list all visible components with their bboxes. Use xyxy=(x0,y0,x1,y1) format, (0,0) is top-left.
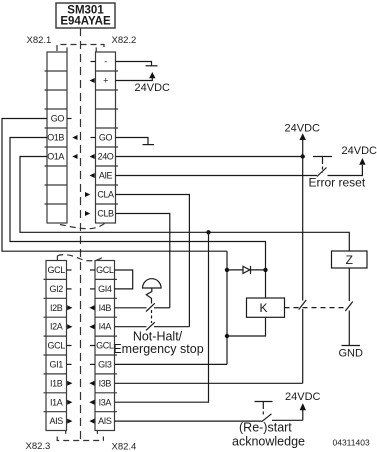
terminal strip X82.2 xyxy=(96,52,119,223)
svg-text:AIE: AIE xyxy=(99,171,113,181)
wire CLA xyxy=(116,195,190,327)
pin stub GCL X82.3 xyxy=(67,269,72,271)
arrow O1B output xyxy=(72,135,77,140)
svg-text:X82.1: X82.1 xyxy=(27,35,52,46)
error reset contact blade xyxy=(317,168,327,177)
hook stub above X82.2 xyxy=(95,47,97,52)
diode D1 xyxy=(243,266,251,274)
node 24O junction xyxy=(301,154,305,158)
module boundary wavy break (top section bottom) xyxy=(60,223,105,228)
svg-text:K: K xyxy=(259,301,267,315)
svg-text:-: - xyxy=(104,57,107,67)
wire restart to 24VDC xyxy=(302,410,304,420)
pin stub GI2 X82.3 xyxy=(67,288,72,290)
wire minus to earth xyxy=(116,62,152,66)
wire contact to GND xyxy=(348,311,350,346)
svg-text:I1A: I1A xyxy=(50,397,63,407)
svg-text:O1B: O1B xyxy=(47,133,64,143)
diode wire xyxy=(227,269,266,271)
error reset button head xyxy=(313,157,332,173)
svg-text:AIS: AIS xyxy=(98,416,112,426)
svg-text:I3B: I3B xyxy=(99,378,112,388)
arrow plus input xyxy=(90,78,95,83)
jumper GCL to GI4 xyxy=(115,270,133,289)
wire I4A contact row xyxy=(115,326,190,328)
arrow AIS input (X82.3) xyxy=(67,419,72,424)
external device Z xyxy=(332,251,368,268)
svg-text:GCL: GCL xyxy=(48,341,66,351)
24VDC supply arrow (restart) xyxy=(300,403,306,410)
wire K coil bottom return xyxy=(227,317,266,336)
svg-text:I2A: I2A xyxy=(50,322,63,332)
svg-text:I4A: I4A xyxy=(99,322,112,332)
svg-text:GND: GND xyxy=(339,348,364,360)
arrow I2A input xyxy=(67,324,72,329)
svg-text:I1B: I1B xyxy=(50,378,63,388)
svg-text:04311403: 04311403 xyxy=(333,437,370,447)
pin stub GI3 X82.4 xyxy=(90,363,95,365)
pin stub GI4 X82.4 xyxy=(90,288,95,290)
terminal strip X82.1 xyxy=(45,52,68,223)
ground symbol (GO) xyxy=(143,144,155,146)
svg-text:X82.3: X82.3 xyxy=(26,441,51,452)
module boundary wavy break (bottom section top) xyxy=(57,255,104,261)
terminal strip X82.4 xyxy=(95,261,117,431)
svg-text:GI1: GI1 xyxy=(50,360,64,370)
svg-text:O1A: O1A xyxy=(47,152,64,162)
arrow AIS input (X82.4) xyxy=(89,419,94,424)
pin stub GO X82.2 xyxy=(91,137,96,139)
wire I3A branch down xyxy=(115,232,209,402)
svg-text:+: + xyxy=(103,76,108,86)
hook stub above X82.3 xyxy=(56,256,58,261)
svg-text:I2B: I2B xyxy=(50,303,63,313)
wire O1B left side xyxy=(10,138,266,298)
wire reset to 24VDC xyxy=(328,165,363,176)
wire O1A left side xyxy=(20,157,349,252)
restart contact blade xyxy=(262,414,272,422)
svg-text:GI3: GI3 xyxy=(98,360,112,370)
NC contact 2 blade xyxy=(146,322,155,330)
arrow CLB output xyxy=(85,211,90,216)
NC contact 1 blade xyxy=(146,303,155,311)
module SM301 title box xyxy=(56,3,115,28)
svg-text:(Re-)start: (Re-)start xyxy=(239,421,292,435)
wire AIE to reset contact xyxy=(116,175,318,177)
arrow O1A output xyxy=(72,154,77,159)
wire GI3 row xyxy=(115,363,228,365)
pin stub GCL X82.4 xyxy=(90,269,95,271)
Z feedback contact blade xyxy=(345,302,353,312)
svg-text:24VDC: 24VDC xyxy=(285,391,321,403)
wire CLB xyxy=(116,214,170,308)
node diode anode xyxy=(225,268,229,272)
svg-text:GCL: GCL xyxy=(96,265,114,275)
arrow I3B input xyxy=(89,381,94,386)
svg-text:GO: GO xyxy=(99,133,113,143)
relay coil K xyxy=(247,298,285,317)
wire 24O xyxy=(116,156,303,158)
arrow 24O output xyxy=(90,154,95,159)
wire 24O rail down to I3B with K contact xyxy=(115,157,303,384)
pin stub minus X82.2 xyxy=(91,61,96,63)
arrow CLA output xyxy=(85,192,90,197)
wire GO (X82.2) to earth xyxy=(116,138,149,145)
svg-text:X82.2: X82.2 xyxy=(112,35,137,46)
wire AIS restart row xyxy=(115,419,303,422)
arrow I4A input xyxy=(89,324,94,329)
node K coil return xyxy=(225,334,229,338)
svg-text:GO: GO xyxy=(51,114,65,124)
hook stub above X82.1 xyxy=(66,47,68,52)
svg-text:I4B: I4B xyxy=(99,303,112,313)
arrow I1B input xyxy=(67,381,72,386)
svg-text:GCL: GCL xyxy=(96,341,114,351)
svg-text:24O: 24O xyxy=(98,152,114,162)
svg-text:CLA: CLA xyxy=(97,190,114,200)
wire plus from 24VDC xyxy=(116,78,153,81)
svg-text:GCL: GCL xyxy=(48,265,66,275)
arrow I1A input xyxy=(67,400,72,405)
pin stub GI1 X82.3 xyxy=(67,363,72,365)
svg-text:Z: Z xyxy=(346,253,353,267)
actuator dashed link to second contact xyxy=(151,310,153,323)
module boundary top dashed outline xyxy=(57,45,104,52)
restart button head xyxy=(255,402,273,417)
svg-text:GI2: GI2 xyxy=(50,284,64,294)
module boundary center dashed line xyxy=(80,28,82,441)
arrow I4B input xyxy=(89,305,94,310)
K relay contact blade (on I3B feed) xyxy=(299,300,307,310)
svg-text:CLB: CLB xyxy=(97,209,114,219)
hook stub below X82.4 xyxy=(96,431,98,434)
terminal strip X82.3 xyxy=(44,261,67,431)
svg-text:E94AYAE: E94AYAE xyxy=(60,16,111,28)
GND symbol xyxy=(342,345,361,347)
svg-text:acknowledge: acknowledge xyxy=(232,435,305,449)
ground symbol (minus) xyxy=(146,65,158,67)
node diode cathode xyxy=(263,268,267,272)
svg-text:Emergency stop: Emergency stop xyxy=(113,342,203,356)
svg-text:24VDC: 24VDC xyxy=(342,145,377,157)
svg-text:I3A: I3A xyxy=(99,397,112,407)
svg-text:Error reset: Error reset xyxy=(309,176,366,190)
24VDC supply arrow (error reset) xyxy=(359,158,365,165)
wire GO (X82.1) left side xyxy=(2,119,227,252)
pin stub GCL2 X82.3 xyxy=(67,345,72,347)
wire Z to contact xyxy=(348,268,350,301)
svg-text:24VDC: 24VDC xyxy=(285,123,321,135)
pin stub GCL2 X82.4 xyxy=(90,345,95,347)
module boundary bottom dashed outline xyxy=(57,437,103,441)
24VDC supply arrow (24O rail) xyxy=(300,133,306,156)
wire GO down to K circuit xyxy=(226,251,228,364)
wire I4B contact row xyxy=(115,307,170,309)
node O1A to I3A branch xyxy=(206,230,210,234)
svg-text:AIS: AIS xyxy=(50,416,64,426)
mushroom actuator squiggle xyxy=(146,288,152,304)
svg-text:24VDC: 24VDC xyxy=(135,82,171,94)
K actuation dashed link xyxy=(285,307,345,309)
arrow I3A input xyxy=(89,400,94,405)
pin stub GO X82.1 xyxy=(67,118,72,120)
svg-text:X82.4: X82.4 xyxy=(112,442,137,452)
arrow I2B input xyxy=(67,305,72,310)
svg-text:GI4: GI4 xyxy=(98,284,112,294)
hook stub below X82.3 xyxy=(65,431,67,434)
emergency stop mushroom head xyxy=(143,279,162,288)
arrow AIE input xyxy=(90,173,95,178)
24VDC supply arrow (plus) xyxy=(149,72,155,78)
